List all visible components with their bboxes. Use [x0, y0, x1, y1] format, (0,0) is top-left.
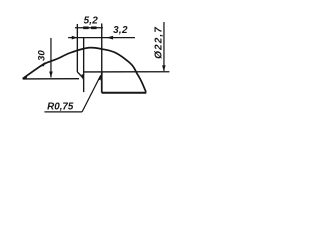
arrow at baseline end [81, 74, 84, 79]
section edge vertical (thick) [101, 72, 103, 93]
angle dimension line (30) vertical [50, 38, 52, 77]
baseline left [23, 78, 79, 80]
section bottom line (thick) [102, 92, 147, 94]
arrow at arc left tip [22, 75, 27, 79]
svg-text:R0,75: R0,75 [47, 101, 74, 112]
leader shelf [44, 111, 82, 113]
svg-text:Ø22,7: Ø22,7 [153, 26, 164, 59]
svg-text:30: 30 [36, 50, 47, 61]
dimension line 3,2 [68, 37, 135, 39]
slot bottom line / diameter extension line [83, 71, 169, 73]
leader arrowhead [98, 74, 102, 80]
dim 3,2 arrow blob right [106, 36, 113, 40]
head outline arc [23, 48, 146, 92]
arrow on arc (angle) [39, 62, 45, 66]
angle dim arrow down [49, 72, 53, 78]
slot bottom cone flank [77, 72, 83, 78]
depth reference line V2 [83, 38, 85, 92]
slot left wall V1 [76, 24, 78, 72]
svg-text:5,2: 5,2 [84, 15, 99, 26]
slot right wall V3 [101, 23, 103, 71]
diameter dimension line [163, 22, 165, 71]
svg-text:3,2: 3,2 [113, 25, 128, 36]
dim 5,2 arrow blob right [91, 26, 97, 29]
dimension line 5,2 [75, 27, 103, 29]
dim 3,2 arrow blob left [72, 36, 78, 40]
leader line R0,75 [82, 75, 101, 112]
dim 5,2 arrow blob left [83, 26, 89, 29]
diameter arrow down [162, 65, 166, 71]
